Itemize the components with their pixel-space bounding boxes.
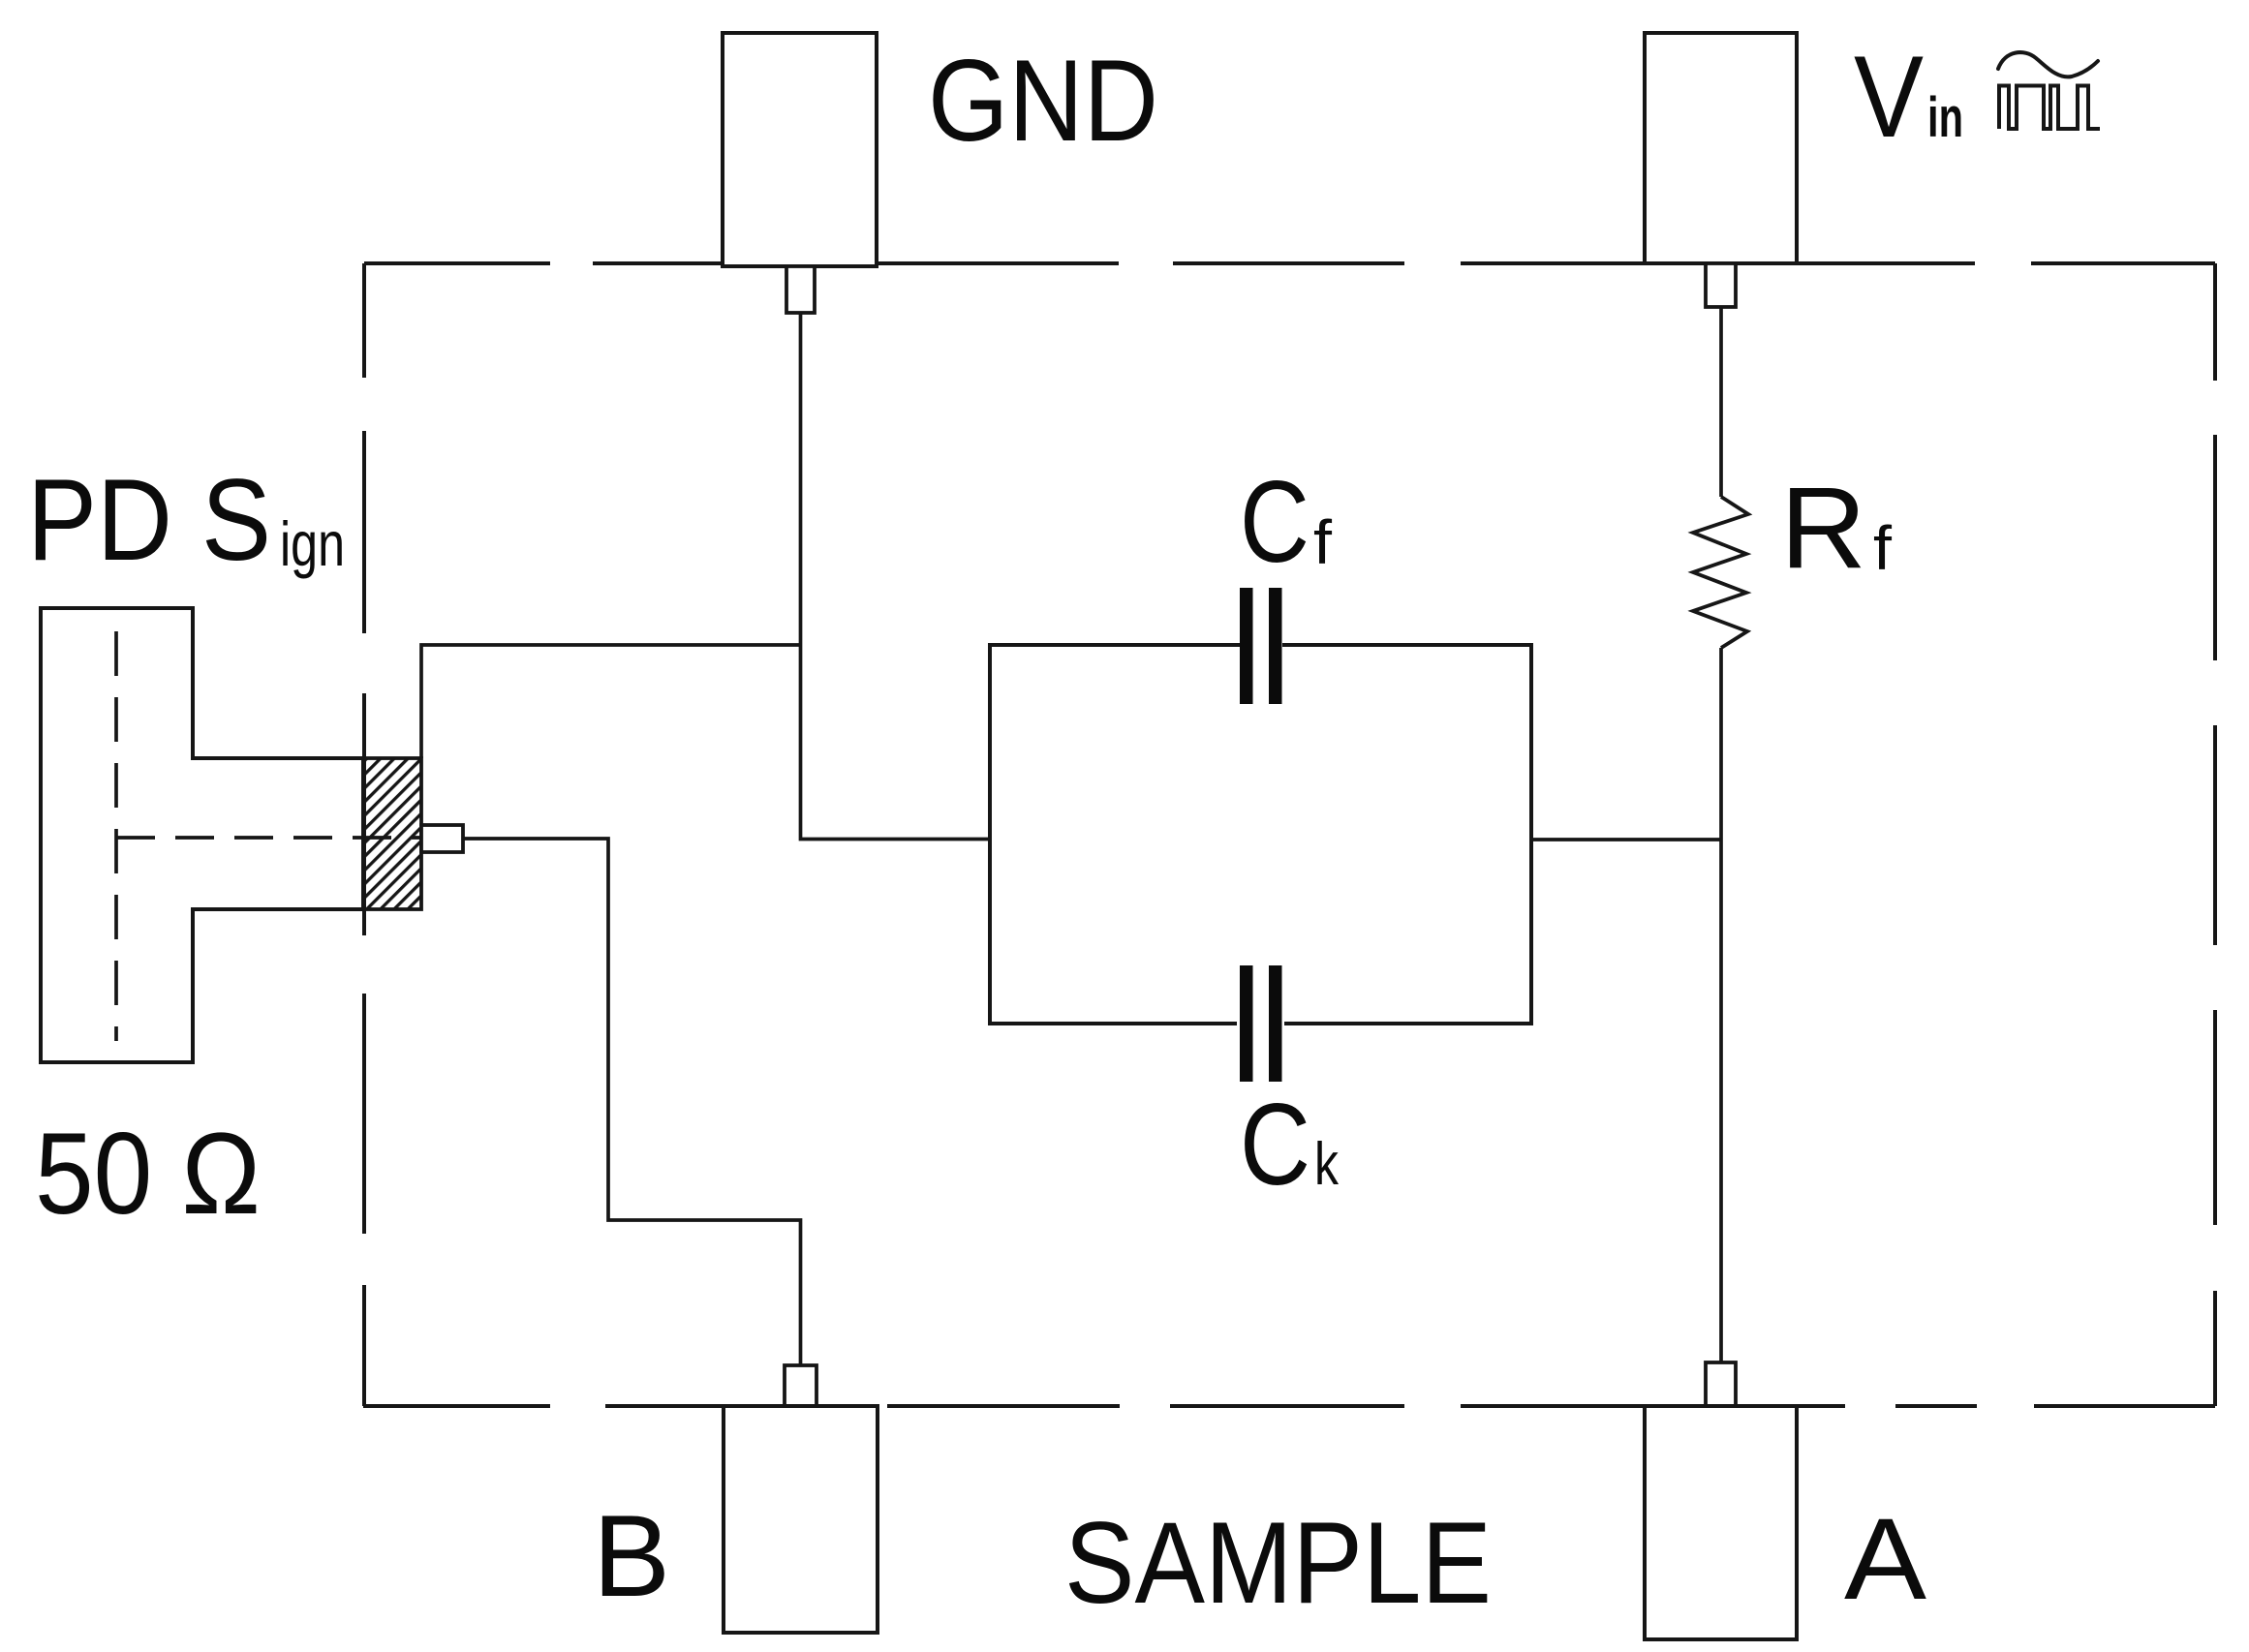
Vin waveform icon: pulse train — [1999, 86, 2100, 130]
contact pin — [421, 825, 463, 852]
pin above pad B — [785, 1365, 816, 1406]
sample boundary dashed box — [363, 263, 2215, 1406]
wire Vin pin to resistor — [1719, 307, 1723, 497]
probe axis dashed line vertical — [114, 631, 118, 1041]
svg-text:50 Ω: 50 Ω — [35, 1109, 261, 1239]
svg-text:GND: GND — [928, 36, 1158, 166]
wire resistor down to pin A — [1719, 648, 1723, 1365]
svg-text:in: in — [1927, 86, 1963, 149]
svg-text:B: B — [593, 1491, 670, 1621]
svg-text:k: k — [1314, 1131, 1340, 1198]
capacitor Cf plates — [1240, 588, 1253, 704]
svg-text:R: R — [1780, 463, 1866, 593]
pad A — [1645, 1406, 1797, 1639]
central box (gaps for capacitors) — [990, 645, 1531, 1024]
GND pin — [786, 266, 815, 313]
svg-text:C: C — [1240, 1080, 1310, 1209]
PD probe body (rotated T) — [41, 608, 363, 1062]
svg-text:PD S: PD S — [27, 455, 271, 585]
svg-text:f: f — [1873, 513, 1892, 583]
svg-text:SAMPLE: SAMPLE — [1064, 1498, 1492, 1628]
resistor Rf zigzag — [1693, 497, 1748, 648]
wire contact pin to pad B — [463, 839, 801, 1367]
hatched contact block — [363, 758, 421, 909]
svg-text:A: A — [1844, 1494, 1926, 1624]
wire from probe contact up and right to GND net — [421, 645, 801, 758]
capacitor Ck plates — [1240, 965, 1253, 1082]
GND pad — [723, 33, 877, 266]
Vin waveform icon: tilde — [1998, 52, 2098, 76]
pad B — [724, 1406, 878, 1633]
wire central box to Rf column — [1531, 838, 1721, 841]
Vin pad — [1645, 33, 1797, 263]
Vin pin — [1706, 263, 1736, 307]
svg-text:V: V — [1854, 32, 1924, 162]
svg-text:f: f — [1313, 507, 1332, 577]
pin above pad A — [1706, 1362, 1736, 1406]
svg-text:ign: ign — [280, 508, 345, 579]
probe axis dashed line horizontal — [116, 836, 451, 840]
wire GND pin down to node — [801, 313, 991, 840]
svg-text:C: C — [1240, 457, 1309, 587]
